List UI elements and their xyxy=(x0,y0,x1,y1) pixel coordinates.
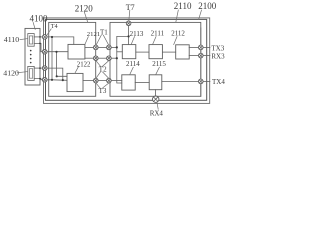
wire 2115 to TX4 xyxy=(162,81,199,83)
box 2114 xyxy=(122,75,135,90)
junction dots bus xyxy=(51,36,64,81)
wire3 xyxy=(47,68,63,80)
box 2121 xyxy=(68,44,85,59)
wire 4110 upper xyxy=(34,36,42,38)
svg-text:T3: T3 xyxy=(99,87,107,95)
bus2 xyxy=(57,52,68,77)
wire 4110 lower xyxy=(34,43,42,51)
box 2112 xyxy=(176,45,190,59)
wire 2115 to RX4 xyxy=(154,90,156,96)
leader RX4 xyxy=(157,103,158,110)
box 2100 xyxy=(46,19,207,100)
port TX3 xyxy=(199,45,204,50)
wire row C right out xyxy=(111,80,122,82)
box 4100 xyxy=(25,28,40,85)
port RX3 xyxy=(199,53,204,58)
leader 2120 xyxy=(84,12,88,23)
leader 2112 xyxy=(174,37,177,45)
leaders T2 down xyxy=(96,72,109,78)
wire row B right out xyxy=(111,57,117,59)
wire 2121 to T1 left xyxy=(85,46,94,48)
svg-text:4120: 4120 xyxy=(3,68,19,77)
port row A right xyxy=(107,45,112,50)
wire 2112 to TX3 xyxy=(189,47,198,49)
svg-text:T4: T4 xyxy=(51,23,59,30)
wire row B connector xyxy=(98,57,106,59)
port row B left xyxy=(94,56,99,61)
leader 2113 xyxy=(131,37,134,45)
junction dots 2110 xyxy=(116,35,130,59)
svg-text:4110: 4110 xyxy=(4,35,19,44)
box 4120 xyxy=(28,66,34,80)
bus vertical right xyxy=(200,28,202,96)
wire row A right out xyxy=(111,46,117,48)
wire row A connector xyxy=(98,46,106,48)
wire 4120 lower xyxy=(34,79,42,80)
port T4 xyxy=(42,35,47,40)
port left3 xyxy=(42,66,47,71)
wire 2111 to 2112 xyxy=(162,51,175,53)
wire4 xyxy=(47,79,67,82)
svg-text:2111: 2111 xyxy=(151,30,165,38)
box 2113 xyxy=(122,45,136,59)
tie RX3 xyxy=(203,55,210,57)
svg-text:TX4: TX4 xyxy=(212,78,225,86)
bus1 xyxy=(51,37,53,80)
leader T4 xyxy=(47,29,51,35)
leader T7 xyxy=(129,10,130,21)
wire 2121 to T2 left xyxy=(85,57,94,59)
tie TX3 xyxy=(203,46,210,48)
svg-text:2110: 2110 xyxy=(174,1,192,11)
outer frame E1 xyxy=(44,18,210,104)
svg-text:T7: T7 xyxy=(126,3,135,12)
port left4 xyxy=(42,77,47,82)
svg-text:RX4: RX4 xyxy=(150,109,164,117)
box 2111 xyxy=(149,45,162,59)
leader 2114 xyxy=(130,67,134,74)
svg-text:TX3: TX3 xyxy=(211,44,224,52)
svg-text:RX3: RX3 xyxy=(211,53,225,61)
wire into 2113 left xyxy=(117,51,123,53)
ellipsis dots in 4100 xyxy=(30,50,32,64)
wire 2114 to 2115 xyxy=(135,81,149,83)
wire2 to 2121 left xyxy=(47,51,68,53)
box 2115 xyxy=(149,75,162,90)
box 2122 xyxy=(67,73,83,91)
svg-text:2122: 2122 xyxy=(77,61,91,68)
port TX4 xyxy=(199,79,204,84)
svg-text:2113: 2113 xyxy=(130,30,144,38)
wire T7 branch xyxy=(117,36,129,83)
port T7 xyxy=(126,21,131,26)
leader 2110 xyxy=(176,10,179,22)
svg-text:4100: 4100 xyxy=(30,14,49,24)
port left2 xyxy=(42,49,47,54)
leaders T1 xyxy=(96,35,108,45)
leader 2111 xyxy=(153,37,156,45)
leader 2121 xyxy=(85,37,88,45)
wire 4120 upper xyxy=(34,67,42,69)
wire 2112 to RX3 xyxy=(189,55,198,57)
box 2110 xyxy=(110,22,201,96)
port row C right xyxy=(107,78,112,83)
wire T7 down xyxy=(128,26,130,45)
leader 4110 xyxy=(20,39,28,40)
leader 2100 xyxy=(199,10,202,19)
leader 4120 xyxy=(17,72,27,73)
leader 2122 xyxy=(75,67,78,73)
svg-text:2121: 2121 xyxy=(87,31,100,38)
port row C left xyxy=(94,78,99,83)
port RX4 xyxy=(153,96,159,102)
tie TX4 xyxy=(203,80,210,82)
leaders T2 up xyxy=(96,61,109,66)
port row A left xyxy=(94,45,99,50)
junction dots on 4100 edge xyxy=(39,36,41,80)
wire 2113 to 2111 xyxy=(136,51,149,53)
svg-text:2100: 2100 xyxy=(198,1,217,11)
leader 2115 xyxy=(156,67,160,74)
wire row C connector xyxy=(98,80,106,82)
wire1 T4 to 2121 top xyxy=(47,37,74,45)
box 2120 xyxy=(49,22,96,96)
wire 2122 to T3 left xyxy=(83,80,93,82)
port row B right xyxy=(107,56,112,61)
svg-text:2112: 2112 xyxy=(171,30,185,38)
box 4110 xyxy=(28,34,34,47)
leader 4100 xyxy=(33,23,35,30)
leaders T3 xyxy=(96,83,109,88)
